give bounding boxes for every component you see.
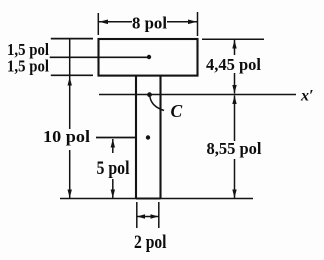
centroid dot C of section [147,92,152,97]
1,5 pol middle leader line to flange dot [50,56,149,58]
centroid dot of flange [147,55,151,59]
dimension 8 pol: right segment with arrow [167,20,197,25]
bottom extension line [60,198,253,200]
stem left edge wire [135,76,137,199]
svg-text:4,45 pol: 4,45 pol [206,55,261,74]
T-section flange outline [99,39,198,76]
stem right edge wire [159,76,161,199]
4,45 pol dimension upper part with up arrowhead [232,40,236,55]
dimension 8 pol: left tick [97,13,99,35]
4,45 pol dimension lower part with down arrowhead [232,73,236,94]
8,55 pol dimension lower part with down arrowhead [232,159,236,198]
5 pol dimension line upper part with up arrowhead [111,139,115,153]
1,5 pol lower tick line [51,74,93,76]
2 pol left tick [136,202,138,228]
svg-text:1,5 pol: 1,5 pol [7,57,49,76]
10 pol dimension vertical line upper part [69,39,71,129]
svg-text:2 pol: 2 pol [134,232,167,253]
svg-text:8 pol: 8 pol [132,13,167,32]
centroid dot of stem [146,135,150,139]
dimension 8 pol: right tick [197,12,199,36]
leader curve to C [150,97,164,111]
dimension 8 pol: left segment with arrow [99,20,132,25]
svg-text:8,55 pol: 8,55 pol [207,139,262,158]
svg-text:C: C [171,101,183,121]
8,55 pol dimension upper part with up arrowhead [232,96,236,142]
2 pol right tick [158,202,160,228]
1,5 pol upper tick line [51,38,93,40]
2 pol dimension line with outward arrowheads [137,214,159,218]
right top extension line [202,38,264,40]
stem bottom edge wire [136,197,161,199]
5 pol dimension line lower part with down arrowhead [111,179,115,198]
svg-text:5 pol: 5 pol [97,159,130,179]
10 pol up arrowhead [68,77,72,86]
10 pol leader to stem centroid level [96,137,136,139]
svg-text:10 pol: 10 pol [43,127,90,146]
x' axis wire [99,94,296,96]
svg-text:x′: x′ [300,88,314,105]
10 pol dimension vertical line lower part with down arrowhead [68,150,72,198]
